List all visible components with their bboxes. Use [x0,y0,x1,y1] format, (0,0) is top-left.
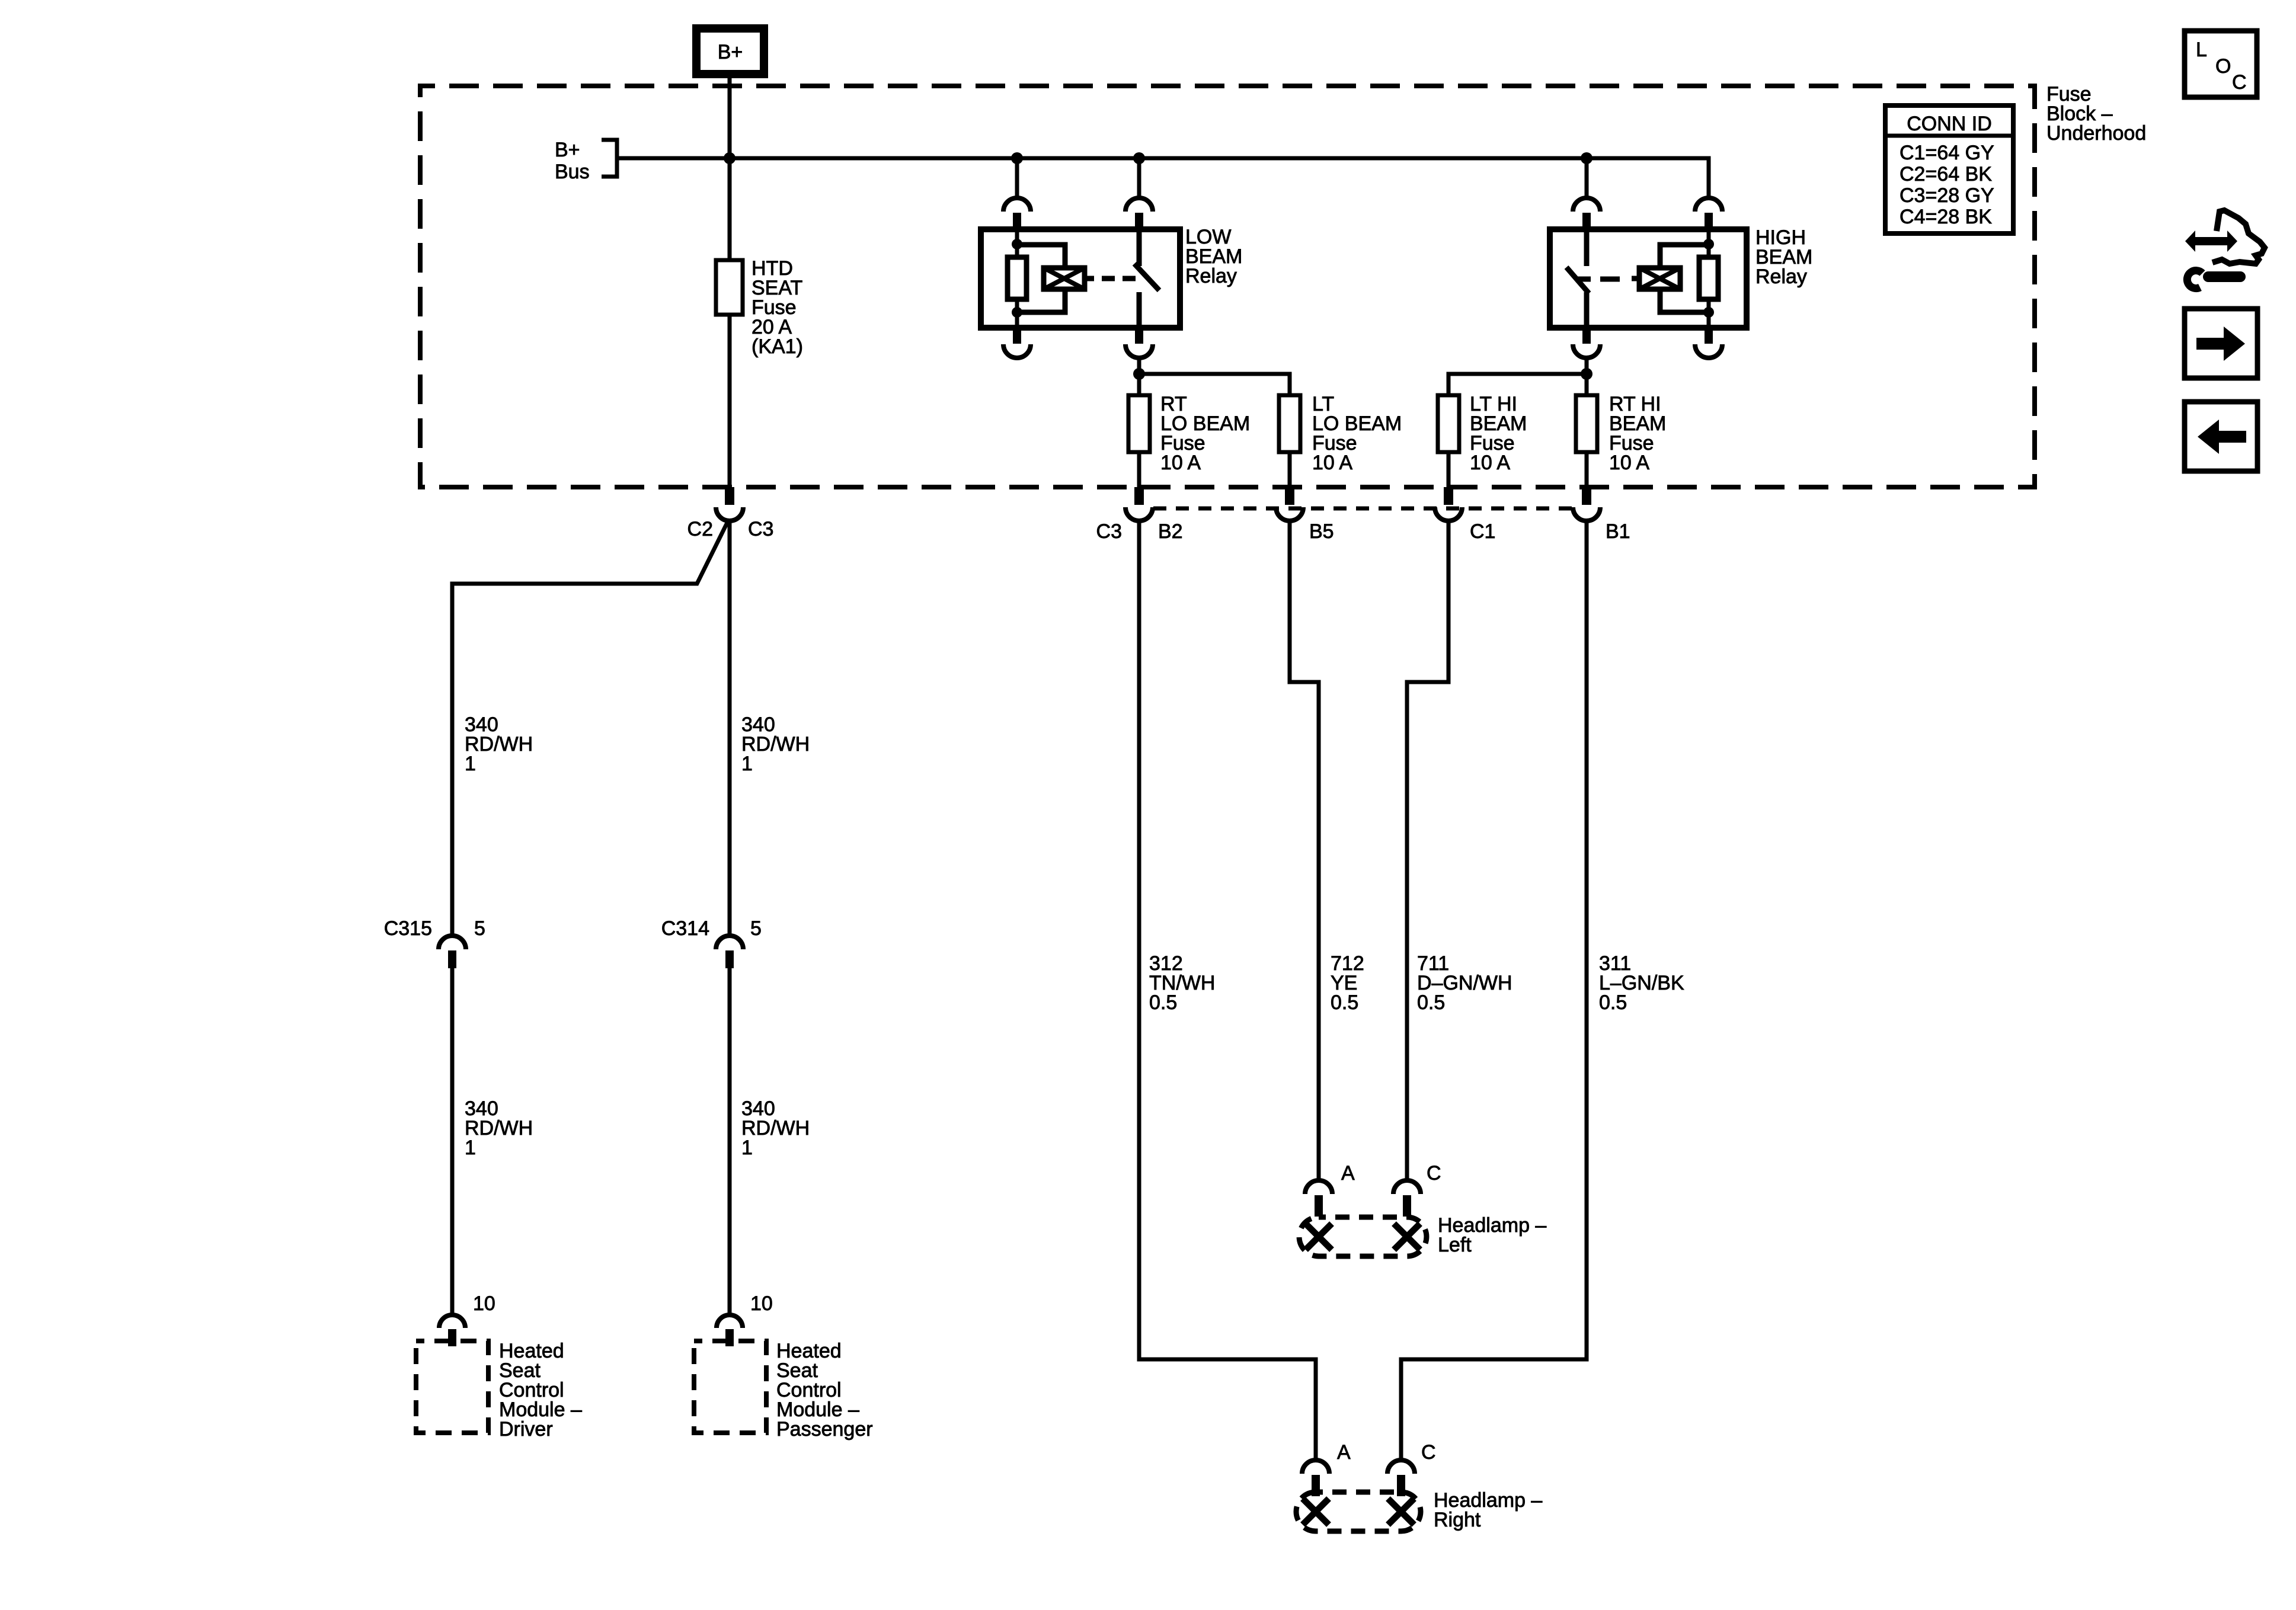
junction bus / HTD SEAT fuse [724,152,736,164]
wire label 340 RD/WH 1 lower right [741,1097,810,1159]
CONN ID table [1885,105,2013,233]
wire B+ bus through HTD SEAT fuse [728,158,732,487]
high beam relay resistor [1699,257,1718,299]
wire low beam coil stub [1085,276,1094,281]
wire RT LO BEAM fuse to connector B2 [1137,452,1141,487]
connector pin high beam relay coil [1695,198,1722,230]
HTD SEAT fuse label [752,257,803,358]
wire circuit 340 branch C2 [452,521,728,936]
node B+ Bus label and bracket [555,139,617,183]
low beam switch [1134,229,1159,328]
wire circuit 311 L-GN/BK B1 to right headlamp C [1401,521,1587,1460]
high beam coil lead wire [1707,229,1711,328]
wire low beam output to RT LO BEAM fuse [1137,358,1141,395]
connector pin low beam switch bottom [1125,328,1153,358]
svg-text:10 A: 10 A [1160,452,1201,474]
svg-text:0.5: 0.5 [1417,991,1445,1014]
wire RT HI BEAM fuse to connector B1 [1585,452,1589,487]
svg-text:Passenger: Passenger [776,1418,873,1441]
connector pin C right headlamp [1387,1460,1415,1496]
relay HIGH BEAM box [1550,229,1747,328]
wire bus to low beam coil pin [1015,158,1019,198]
connector C1 fuse block bottom [1435,487,1462,521]
svg-text:C3: C3 [1096,520,1122,543]
wire high beam coil stub [1632,276,1641,281]
wire low beam coil branch bottom [1017,289,1065,312]
connector pin A right headlamp [1302,1460,1329,1496]
svg-text:C2=64 BK: C2=64 BK [1900,163,1992,185]
fuse LT LO BEAM 10 A [1279,395,1300,452]
fuse HTD SEAT 20 A [716,260,743,315]
harness dotted line B2 to B1 [1153,507,1572,511]
svg-text:10: 10 [473,1292,495,1315]
low beam relay coil [1044,268,1085,289]
svg-text:L: L [2196,39,2207,61]
svg-text:0.5: 0.5 [1149,991,1177,1014]
connector pin low beam coil bottom [1003,328,1031,358]
dashed actuation link low beam [1102,276,1136,281]
svg-text:A: A [1341,1162,1355,1185]
connector pin C left headlamp [1393,1180,1421,1217]
wire bus to low beam switch pin [1137,158,1141,198]
svg-text:C1: C1 [1470,520,1495,543]
connector C314 [716,936,743,968]
legend arrow left box [2185,402,2257,471]
svg-text:C4=28 BK: C4=28 BK [1900,206,1992,228]
headlamp left bulbs [1299,1217,1427,1256]
wire circuit 712 YE B5 to left headlamp A [1290,521,1319,1180]
junction low beam coil bottom [1012,307,1022,318]
low beam relay label [1185,226,1242,287]
connector pin high beam relay switch [1573,198,1600,230]
junction high beam coil top [1703,239,1714,249]
wire label 340 RD/WH 1 upper left [465,713,533,775]
part locator icon car and wrench [2185,210,2265,289]
wire high beam coil branch bottom [1660,289,1709,312]
LT HI BEAM fuse label [1470,393,1527,474]
svg-text:Driver: Driver [499,1418,553,1441]
heated seat control module driver dashed box [416,1341,488,1433]
connector pin 10 driver module [439,1315,465,1346]
wire B+ bus [617,158,1709,198]
junction low beam output [1133,368,1145,380]
svg-text:Relay: Relay [1185,265,1237,287]
wire high beam output to RT HI BEAM fuse [1585,358,1589,395]
relay LOW BEAM box [981,229,1180,328]
wire label 711 D-GN/WH 0.5 [1417,952,1512,1014]
connector pin 10 passenger module [717,1315,743,1346]
connector pin A left headlamp [1305,1180,1332,1217]
heated seat control module driver label [499,1340,582,1441]
svg-text:5: 5 [750,917,762,940]
wire circuit 711 D-GN/WH C1 to left headlamp C [1407,521,1448,1180]
svg-text:1: 1 [465,753,476,775]
fuse block underhood dashed boundary [420,86,2035,487]
fuse RT HI BEAM 10 A [1576,395,1597,452]
svg-text:1: 1 [465,1137,476,1159]
svg-text:C3: C3 [748,518,773,540]
svg-text:10 A: 10 A [1312,452,1352,474]
svg-text:B2: B2 [1158,520,1183,543]
wire bus to high beam switch pin [1585,158,1589,198]
svg-text:0.5: 0.5 [1331,991,1358,1014]
wire C315 to driver module [450,968,455,1314]
connector pin low beam relay switch [1125,198,1153,230]
wire C314 to passenger module [728,968,732,1314]
svg-text:C1=64 GY: C1=64 GY [1900,142,1994,164]
wire label 311 L-GN/BK 0.5 [1599,952,1684,1014]
legend arrow right box [2185,309,2257,378]
wire circuit 340 branch C3 [728,521,732,936]
connector C315 [439,936,466,968]
headlamp right label [1434,1489,1542,1531]
connector pin high beam coil bottom [1695,328,1722,358]
headlamp left label [1438,1214,1546,1256]
RT LO BEAM fuse label [1160,393,1250,474]
wire LT LO BEAM fuse to connector B5 [1288,452,1292,487]
svg-text:C: C [1421,1441,1436,1464]
wire high beam coil branch top [1660,245,1709,268]
svg-text:B+: B+ [555,139,580,161]
fuse RT LO BEAM 10 A [1128,395,1150,452]
connector B1 fuse block bottom [1573,487,1600,521]
low beam coil lead wire [1015,229,1019,328]
fuse LT HI BEAM 10 A [1438,395,1459,452]
svg-text:10 A: 10 A [1609,452,1649,474]
svg-text:A: A [1337,1441,1351,1464]
dashed actuation link high beam [1578,277,1620,282]
connector B2 fuse block bottom [1125,487,1153,521]
high beam relay coil [1639,268,1680,289]
wire to LT HI BEAM fuse [1448,374,1587,395]
svg-text:C: C [2232,71,2247,94]
svg-text:O: O [2215,55,2231,78]
wire label 340 RD/WH 1 upper right [741,713,810,775]
RT HI BEAM fuse label [1609,393,1666,474]
svg-text:1: 1 [741,1137,753,1159]
junction high beam output [1581,368,1593,380]
wire B+ feed to bus [728,74,732,158]
connector pin low beam relay coil [1003,198,1031,230]
junction bus / high beam relay switch [1581,152,1593,164]
svg-text:C315: C315 [384,917,432,940]
svg-text:(KA1): (KA1) [752,335,803,358]
junction low beam coil top [1012,239,1022,249]
junction bus / low beam relay switch [1133,152,1145,164]
svg-text:1: 1 [741,753,753,775]
high beam switch [1566,229,1589,328]
heated seat control module passenger dashed box [694,1341,766,1433]
low beam relay resistor [1008,257,1027,299]
svg-text:C314: C314 [661,917,709,940]
svg-text:Left: Left [1438,1234,1472,1256]
svg-text:Underhood: Underhood [2046,122,2146,145]
svg-text:Right: Right [1434,1509,1481,1531]
heated seat control module passenger label [776,1340,873,1441]
svg-text:10: 10 [750,1292,773,1315]
svg-text:Bus: Bus [555,161,590,183]
wire to LT LO BEAM fuse [1139,374,1290,395]
svg-text:10 A: 10 A [1470,452,1510,474]
svg-text:5: 5 [474,917,485,940]
connector B5 fuse block bottom [1276,487,1303,521]
LOC legend box [2185,31,2257,97]
wire circuit 312 TN/WH B2 to right headlamp A [1139,521,1316,1460]
svg-text:C: C [1427,1162,1441,1185]
svg-text:B1: B1 [1606,520,1630,543]
junction bus / low beam relay coil [1011,152,1023,164]
svg-text:C2: C2 [687,518,713,540]
svg-text:0.5: 0.5 [1599,991,1627,1014]
svg-text:CONN ID: CONN ID [1907,113,1992,135]
connector pin high beam switch bottom [1573,328,1600,358]
headlamp right bulbs [1296,1492,1421,1531]
junction high beam coil bottom [1703,307,1714,318]
high beam relay label [1755,226,1812,288]
LT LO BEAM fuse label [1312,393,1402,474]
svg-text:B+: B+ [718,41,743,63]
fuse block label [2046,83,2146,145]
wire label 340 RD/WH 1 lower left [465,1097,533,1159]
wire label 312 TN/WH 0.5 [1149,952,1215,1014]
svg-text:B5: B5 [1309,520,1334,543]
svg-text:C3=28 GY: C3=28 GY [1900,184,1994,207]
wire LT HI BEAM fuse to connector C1 [1447,452,1451,487]
wire label 712 YE 0.5 [1331,952,1364,1014]
svg-text:Relay: Relay [1755,265,1807,288]
wire low beam coil branch top [1017,245,1065,268]
power symbol B+ [696,28,764,74]
connector C2 C3 fuse block bottom [716,487,743,521]
